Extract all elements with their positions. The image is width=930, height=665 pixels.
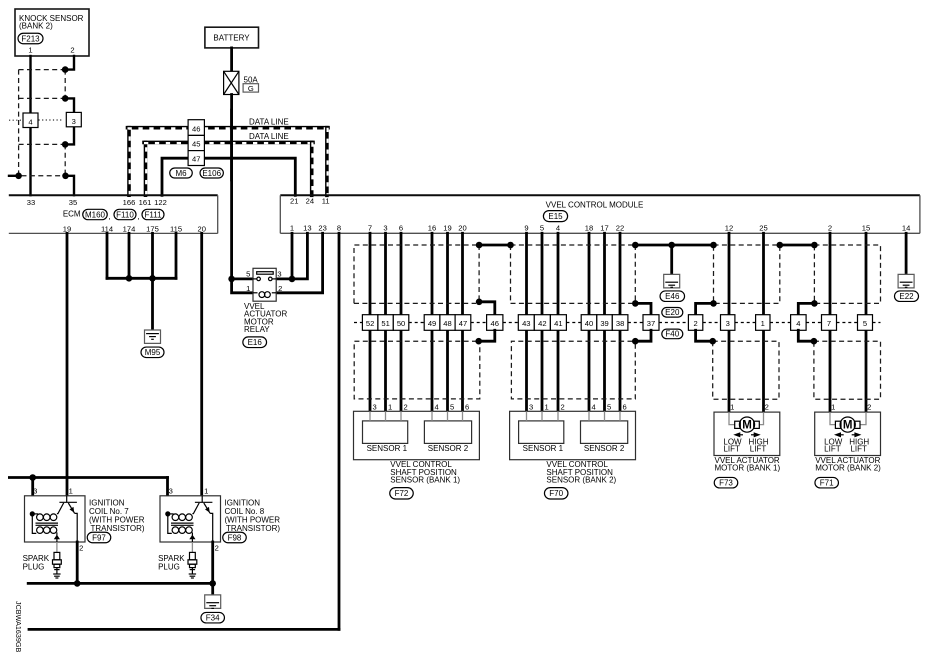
svg-text:12: 12 — [725, 224, 733, 233]
svg-text:3: 3 — [33, 487, 37, 496]
svg-text:115: 115 — [170, 224, 182, 233]
svg-text:14: 14 — [902, 224, 910, 233]
svg-text:BATTERY: BATTERY — [213, 33, 250, 42]
svg-text:M95: M95 — [145, 348, 161, 357]
svg-text:2: 2 — [693, 319, 697, 328]
svg-text:LIFT: LIFT — [850, 445, 867, 454]
svg-text:4: 4 — [796, 319, 800, 328]
svg-text:17: 17 — [600, 224, 608, 233]
svg-text:4: 4 — [591, 402, 595, 411]
svg-text:21: 21 — [290, 196, 298, 205]
svg-text:19: 19 — [443, 224, 451, 233]
svg-text:3: 3 — [72, 117, 76, 126]
svg-text:E46: E46 — [665, 292, 680, 301]
svg-text:SENSOR (BANK 2): SENSOR (BANK 2) — [546, 475, 616, 484]
svg-text:43: 43 — [522, 319, 530, 328]
svg-text:1: 1 — [290, 224, 294, 233]
svg-text:23: 23 — [318, 224, 326, 233]
svg-text:LIFT: LIFT — [750, 445, 767, 454]
svg-text:161: 161 — [139, 198, 152, 207]
svg-text:MOTOR (BANK 1): MOTOR (BANK 1) — [715, 464, 781, 473]
svg-text:24: 24 — [306, 196, 314, 205]
svg-text:33: 33 — [27, 198, 35, 207]
svg-text:1: 1 — [761, 319, 765, 328]
svg-text:2: 2 — [278, 284, 282, 293]
svg-text:35: 35 — [69, 198, 77, 207]
svg-text:6: 6 — [399, 224, 403, 233]
svg-text:51: 51 — [381, 319, 389, 328]
svg-text:2: 2 — [403, 402, 407, 411]
svg-text:2: 2 — [79, 544, 83, 553]
svg-text:46: 46 — [491, 319, 499, 328]
svg-text:F213: F213 — [21, 34, 40, 43]
svg-text:1: 1 — [831, 403, 835, 412]
svg-text:1: 1 — [204, 487, 208, 496]
svg-text:3: 3 — [169, 487, 173, 496]
svg-text:11: 11 — [322, 196, 330, 205]
svg-text:6: 6 — [622, 402, 626, 411]
svg-text:G: G — [248, 84, 254, 93]
svg-text:E16: E16 — [248, 338, 263, 347]
svg-text:E106: E106 — [202, 169, 221, 178]
svg-text:M: M — [742, 420, 752, 432]
svg-text:VVEL CONTROL MODULE: VVEL CONTROL MODULE — [546, 200, 644, 209]
svg-text:E22: E22 — [899, 292, 914, 301]
svg-text:SENSOR 2: SENSOR 2 — [428, 444, 469, 453]
svg-text:F70: F70 — [549, 489, 563, 498]
svg-text:1: 1 — [69, 487, 73, 496]
svg-text:7: 7 — [368, 224, 372, 233]
svg-text:114: 114 — [101, 224, 113, 233]
svg-text:1: 1 — [28, 46, 32, 55]
svg-text:F111: F111 — [144, 210, 162, 219]
svg-text:JCBWA1639GB: JCBWA1639GB — [14, 601, 23, 652]
svg-text:2: 2 — [215, 544, 219, 553]
svg-text:42: 42 — [538, 319, 546, 328]
svg-text:5: 5 — [246, 270, 250, 279]
svg-text:SENSOR (BANK 1): SENSOR (BANK 1) — [390, 475, 460, 484]
svg-text:9: 9 — [524, 224, 528, 233]
svg-text:6: 6 — [465, 402, 469, 411]
svg-text:ECM: ECM — [63, 210, 81, 219]
svg-text:PLUG: PLUG — [158, 563, 180, 572]
svg-text:E20: E20 — [665, 308, 680, 317]
svg-text:4: 4 — [556, 224, 560, 233]
svg-text:1: 1 — [246, 284, 250, 293]
svg-text:122: 122 — [154, 198, 167, 207]
svg-text:47: 47 — [459, 319, 467, 328]
svg-text:166: 166 — [123, 198, 136, 207]
svg-text:M: M — [843, 420, 853, 432]
svg-text:7: 7 — [827, 319, 831, 328]
svg-text:41: 41 — [554, 319, 562, 328]
svg-text:19: 19 — [63, 224, 71, 233]
svg-text:F34: F34 — [206, 614, 220, 623]
svg-text:5: 5 — [540, 224, 544, 233]
svg-text:48: 48 — [443, 319, 451, 328]
svg-text:2: 2 — [828, 224, 832, 233]
svg-text:SENSOR 1: SENSOR 1 — [523, 444, 564, 453]
svg-text:F98: F98 — [228, 533, 242, 542]
svg-text:1: 1 — [388, 402, 392, 411]
svg-text:3: 3 — [277, 270, 281, 279]
svg-text:LIFT: LIFT — [824, 445, 841, 454]
svg-text:F110: F110 — [116, 210, 134, 219]
svg-text:1: 1 — [730, 403, 734, 412]
svg-text:PLUG: PLUG — [23, 563, 45, 572]
svg-text:4: 4 — [28, 118, 32, 127]
svg-text:5: 5 — [450, 402, 454, 411]
svg-text:F71: F71 — [820, 479, 834, 488]
svg-text:47: 47 — [192, 155, 200, 164]
svg-text:15: 15 — [862, 224, 870, 233]
svg-text:3: 3 — [726, 319, 730, 328]
svg-text:50: 50 — [397, 319, 405, 328]
svg-text:M160: M160 — [85, 210, 106, 219]
svg-text:49: 49 — [428, 319, 436, 328]
svg-text:E15: E15 — [548, 212, 563, 221]
svg-text:52: 52 — [366, 319, 374, 328]
svg-text:174: 174 — [123, 224, 136, 233]
svg-text:5: 5 — [863, 319, 867, 328]
svg-text:SENSOR 2: SENSOR 2 — [584, 444, 625, 453]
svg-text:SENSOR 1: SENSOR 1 — [367, 444, 408, 453]
svg-text:20: 20 — [458, 224, 466, 233]
svg-text:20: 20 — [197, 224, 205, 233]
svg-text:45: 45 — [192, 140, 200, 149]
svg-text:3: 3 — [383, 224, 387, 233]
svg-text:40: 40 — [585, 319, 593, 328]
svg-text:22: 22 — [616, 224, 624, 233]
svg-text:25: 25 — [759, 224, 767, 233]
svg-text:5: 5 — [607, 402, 611, 411]
svg-text:1: 1 — [544, 402, 548, 411]
svg-text:DATA LINE: DATA LINE — [249, 117, 289, 126]
svg-text:DATA LINE: DATA LINE — [249, 132, 289, 141]
svg-text:MOTOR (BANK 2): MOTOR (BANK 2) — [815, 464, 881, 473]
svg-text:,: , — [108, 212, 110, 221]
svg-text:18: 18 — [585, 224, 593, 233]
svg-text:F97: F97 — [92, 533, 106, 542]
svg-text:50A: 50A — [244, 75, 259, 84]
svg-text:F40: F40 — [665, 330, 679, 339]
svg-text:16: 16 — [428, 224, 436, 233]
svg-text:175: 175 — [146, 224, 159, 233]
svg-text:8: 8 — [337, 224, 341, 233]
svg-text:13: 13 — [303, 224, 311, 233]
svg-text:37: 37 — [647, 319, 655, 328]
svg-text:RELAY: RELAY — [244, 325, 270, 334]
svg-text:39: 39 — [600, 319, 608, 328]
svg-text:(BANK 2): (BANK 2) — [19, 21, 53, 30]
svg-text:4: 4 — [434, 402, 438, 411]
svg-text:38: 38 — [616, 319, 624, 328]
svg-text:F72: F72 — [395, 489, 409, 498]
svg-text:3: 3 — [372, 402, 376, 411]
svg-text:3: 3 — [529, 402, 533, 411]
svg-text:2: 2 — [560, 402, 564, 411]
svg-text:F73: F73 — [719, 479, 733, 488]
svg-text:2: 2 — [867, 403, 871, 412]
svg-text:LIFT: LIFT — [723, 445, 740, 454]
svg-text:2: 2 — [765, 403, 769, 412]
svg-text:2: 2 — [70, 46, 74, 55]
svg-text:M6: M6 — [175, 169, 187, 178]
svg-text:,: , — [137, 212, 139, 221]
svg-text:46: 46 — [192, 124, 200, 133]
